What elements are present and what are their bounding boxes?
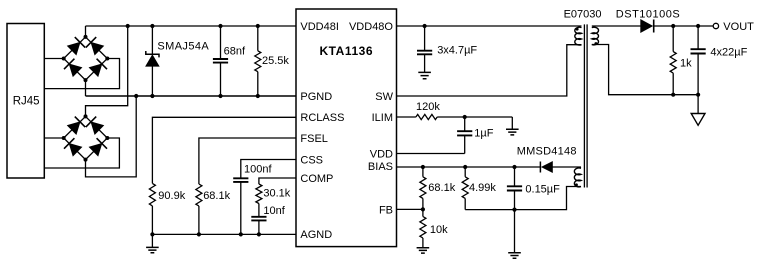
- svg-text:E07030: E07030: [564, 9, 602, 21]
- node FB divider: [421, 207, 425, 211]
- diode D2 DST10100S: [641, 20, 653, 33]
- node top rail / C1: [218, 24, 222, 28]
- wire ILIM to R5: [397, 116, 416, 118]
- resistor R1 25.5k: [257, 26, 259, 51]
- svg-text:RCLASS: RCLASS: [300, 112, 344, 124]
- svg-text:SW: SW: [375, 91, 393, 103]
- node PGND / R1: [256, 94, 260, 98]
- BR1 diode bottom-left arm: [69, 64, 82, 76]
- svg-text:VDD: VDD: [370, 148, 393, 160]
- BR2 diode left-top arm: [68, 122, 81, 134]
- wire COMP to R4: [259, 178, 296, 184]
- svg-text:CSS: CSS: [300, 154, 323, 166]
- node AGND / R3: [197, 232, 201, 236]
- svg-text:4x22µF: 4x22µF: [710, 46, 747, 58]
- BR2 diode bottom-right arm: [89, 144, 102, 156]
- node VDD48O / C4: [423, 24, 427, 28]
- PGND rail: [86, 95, 297, 97]
- wire BR1 top to VDD48I rail: [85, 26, 87, 37]
- wire FSEL to R3: [199, 138, 296, 184]
- capacitor C6 0.15uF: [514, 167, 516, 186]
- VDD48O rail to transformer primary: [397, 25, 582, 27]
- svg-text:120k: 120k: [416, 101, 440, 113]
- svg-text:SMAJ54A: SMAJ54A: [157, 40, 209, 52]
- resistor R8 10k: [422, 209, 424, 216]
- svg-text:VOUT: VOUT: [723, 21, 754, 33]
- wire RJ45 pin to BR2 left vertex: [44, 137, 63, 139]
- svg-text:BIAS: BIAS: [368, 161, 393, 173]
- node BIAS / R7: [463, 165, 467, 169]
- svg-text:COMP: COMP: [300, 173, 333, 185]
- ground under aux return: [514, 210, 516, 253]
- node PGND / SMAJ54A: [150, 94, 154, 98]
- node return / R9: [671, 93, 675, 97]
- BR2 diode bottom-left arm: [69, 144, 82, 156]
- wire BR2 bottom to PGND rail: [86, 96, 137, 177]
- svg-text:4.99k: 4.99k: [469, 182, 496, 194]
- capacitor C7 4x22uF: [697, 26, 699, 49]
- wire RCLASS to R2: [152, 117, 296, 183]
- wire BR2 right vertex return to RJ45: [44, 138, 119, 168]
- resistor R3 68.1k: [196, 184, 202, 206]
- BIAS rail to D3: [397, 166, 541, 168]
- RJ45 connector J1: [7, 24, 44, 179]
- BR2 junction dots: [84, 114, 88, 118]
- node aux return / ground drop: [512, 208, 516, 212]
- capacitor C4 3x4.7uF: [424, 26, 426, 51]
- node top rail / R1: [256, 24, 260, 28]
- svg-text:100nf: 100nf: [244, 163, 272, 175]
- node BIAS / C6: [512, 165, 516, 169]
- svg-text:KTA1136: KTA1136: [319, 44, 373, 58]
- svg-text:VDD48O: VDD48O: [349, 21, 393, 33]
- svg-text:90.9k: 90.9k: [158, 190, 185, 202]
- svg-text:68.1k: 68.1k: [203, 190, 230, 202]
- diode bridge BR2 outline: [64, 116, 108, 159]
- svg-text:68nf: 68nf: [224, 46, 246, 58]
- BR1 junction dots: [84, 35, 88, 39]
- VOUT terminal circle: [713, 23, 718, 28]
- TVS diode D1 SMAJ54A: [151, 26, 153, 55]
- ground right of C5: [511, 117, 513, 129]
- resistor R9 1k: [672, 26, 674, 52]
- ground under R8: [417, 248, 430, 253]
- svg-text:PGND: PGND: [300, 91, 332, 103]
- svg-text:1µF: 1µF: [474, 128, 493, 140]
- node VOUT / C7: [696, 24, 700, 28]
- svg-text:30.1k: 30.1k: [263, 188, 290, 200]
- ground at AGND rail: [151, 234, 153, 247]
- wire BR1 bottom to PGND rail: [85, 80, 87, 96]
- wire secondary bottom return: [592, 45, 698, 95]
- T1 primary phase dot: [576, 28, 579, 31]
- wire BR2 top to VDD48I rail: [86, 26, 128, 116]
- resistor R5 120k: [416, 114, 437, 119]
- node top rail / SMAJ54A: [150, 24, 154, 28]
- capacitor C2 100nf: [233, 178, 248, 182]
- svg-text:10k: 10k: [430, 224, 448, 236]
- VOUT rail: [654, 25, 714, 27]
- transformer T1 aux winding: [574, 168, 581, 187]
- ground under C4: [418, 72, 431, 78]
- transformer T1 primary winding: [575, 27, 582, 45]
- svg-text:1k: 1k: [680, 58, 692, 70]
- BR1 diode right-top arm: [91, 42, 104, 54]
- node ILIM / C5: [463, 115, 467, 119]
- node AGND / C2: [239, 232, 243, 236]
- resistor R4 30.1k: [256, 184, 262, 204]
- capacitor C3 10nf: [251, 217, 266, 221]
- IC U1 KTA1136 body: [296, 9, 397, 247]
- resistor R6 68.1k: [422, 167, 424, 177]
- svg-text:FB: FB: [379, 205, 393, 217]
- T1 secondary phase dot: [594, 42, 597, 45]
- svg-text:MMSD4148: MMSD4148: [517, 145, 577, 157]
- BR1 diode left-top arm: [68, 42, 81, 54]
- node BIAS / R6: [421, 165, 425, 169]
- svg-text:0.15µF: 0.15µF: [525, 183, 560, 195]
- svg-text:10nf: 10nf: [263, 205, 285, 217]
- BR2 diode right-top arm: [91, 122, 104, 134]
- svg-text:ILIM: ILIM: [372, 112, 393, 124]
- svg-text:3x4.7µF: 3x4.7µF: [437, 45, 477, 57]
- node AGND / R2: [150, 232, 154, 236]
- node PGND / BR2 junction: [134, 94, 138, 98]
- wire RJ45 pin to BR1 left vertex: [44, 58, 63, 60]
- svg-text:68.1k: 68.1k: [428, 182, 455, 194]
- svg-text:DST10100S: DST10100S: [616, 9, 680, 21]
- wire BR1 right vertex return to RJ45: [44, 59, 119, 89]
- node VOUT / R9: [671, 24, 675, 28]
- T1 aux phase dot: [575, 183, 578, 186]
- svg-text:VDD48I: VDD48I: [300, 21, 339, 33]
- svg-text:AGND: AGND: [300, 229, 332, 241]
- wire R4 to C3: [258, 204, 260, 217]
- diode bridge BR1 outline: [64, 37, 108, 80]
- capacitor C5 1uF: [464, 117, 466, 131]
- wire SW to transformer primary bottom: [397, 45, 582, 96]
- svg-text:25.5k: 25.5k: [262, 55, 289, 67]
- aux winding return rail: [465, 187, 581, 210]
- diode D3 MMSD4148: [542, 162, 553, 173]
- transformer T1 secondary winding: [592, 27, 599, 45]
- VDD48I top rail: [86, 25, 297, 27]
- resistor R7 4.99k: [464, 167, 466, 177]
- resistor R2 90.9k: [149, 183, 155, 206]
- BR1 diode bottom-right arm: [89, 64, 102, 76]
- wire secondary to D2: [592, 25, 641, 27]
- svg-text:RJ45: RJ45: [13, 96, 40, 108]
- svg-text:FSEL: FSEL: [300, 133, 328, 145]
- node VDD48I / BR2 junction: [126, 24, 130, 28]
- capacitor C1 68nf: [220, 26, 222, 59]
- transformer T1 core: [584, 24, 587, 187]
- wire CSS to C2: [241, 160, 296, 179]
- output ground arrow: [697, 95, 699, 114]
- AGND rail: [152, 233, 296, 235]
- node PGND / C1: [218, 94, 222, 98]
- node return / C7: [696, 93, 700, 97]
- node AGND / C3: [257, 232, 261, 236]
- wire FB to divider: [397, 208, 423, 210]
- wire VDD to C5 bottom: [397, 153, 465, 155]
- wire R5 to ground drop: [437, 116, 512, 118]
